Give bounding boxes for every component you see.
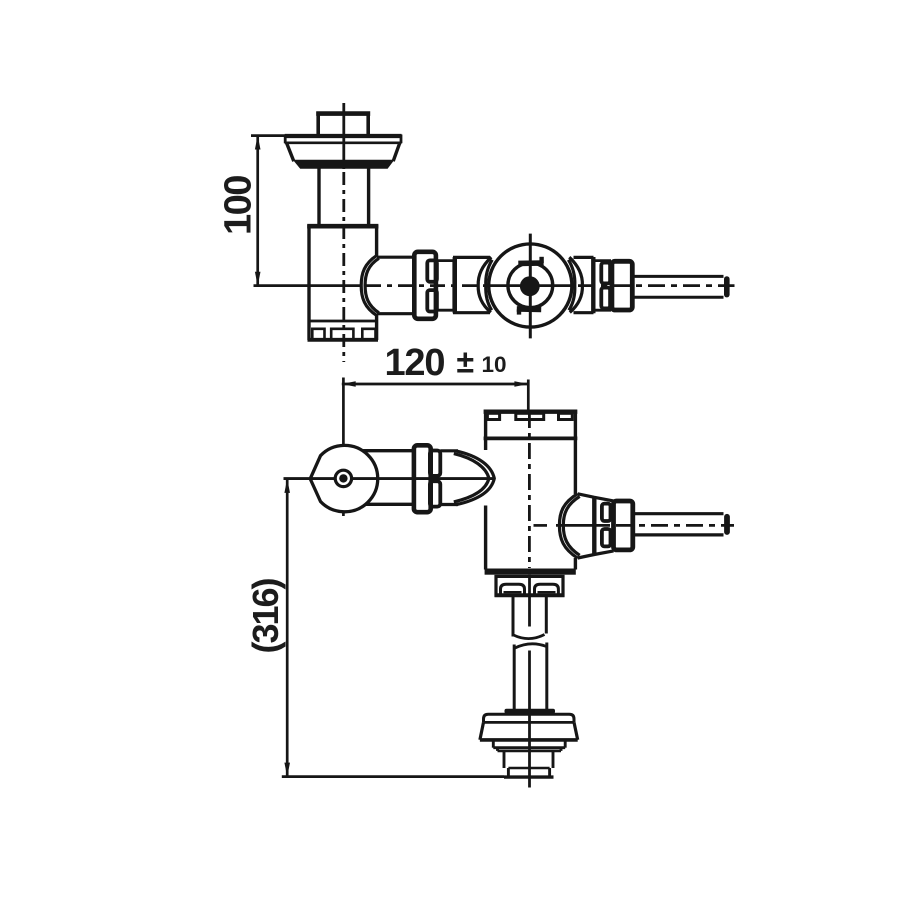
riser pipe (top view) xyxy=(319,168,369,227)
outlet pipe end cap (front view) xyxy=(724,517,730,532)
body bottom dark band (front view) xyxy=(485,569,576,575)
rotation bar top (top view) xyxy=(518,257,543,264)
outlet nut face (front view) xyxy=(592,497,596,555)
top view horizontal centerline xyxy=(254,284,735,287)
outlet union (front view) xyxy=(614,501,633,550)
knob hub ring (front view) xyxy=(338,473,349,484)
outlet pipe to union (top view) xyxy=(377,257,415,314)
mounting flange bar (top view) xyxy=(285,135,402,144)
supply pipe end cap (top view) xyxy=(724,279,730,295)
supply union right (top view) xyxy=(612,261,632,310)
dim 316 extension bottom xyxy=(282,775,504,778)
dim 316 arrow down xyxy=(284,763,290,777)
dim 120 line xyxy=(342,383,529,386)
inlet cone arcs (front view) xyxy=(454,451,495,505)
union nut at knob (front view) xyxy=(414,445,431,512)
spud socket dark band (front view) xyxy=(505,709,556,714)
svg-text:(316): (316) xyxy=(245,578,286,653)
svg-text:±: ± xyxy=(457,344,475,380)
body-to-outlet cone arcs (top view) xyxy=(361,255,379,315)
washers at knob union (front view) xyxy=(430,451,440,507)
handle crosshair vertical (top view) xyxy=(529,234,532,339)
dim 120 arrow left xyxy=(342,381,356,387)
spud flange top band (front view) xyxy=(484,714,575,722)
washers right (top view) xyxy=(601,263,610,309)
spud step 1 (front view) xyxy=(493,740,565,748)
spud step 2 (front view) xyxy=(498,748,562,768)
dim 120 extension right (to valve axis) xyxy=(527,380,530,414)
knob hub outer (front view) xyxy=(334,469,354,489)
outlet centerline (front view) xyxy=(534,524,735,527)
outlet washers (front view) xyxy=(602,504,611,547)
valve body (top view) xyxy=(307,225,378,340)
body bottom crenellation (top view) xyxy=(312,329,375,340)
outlet cone arcs (front view) xyxy=(559,494,579,559)
dim 316 line xyxy=(286,479,289,777)
dim 120 extension left (to knob axis) xyxy=(342,378,345,517)
spud flange skirt (front view) xyxy=(480,722,578,740)
svg-text:10: 10 xyxy=(482,352,507,377)
union nut (top view, left of handle) xyxy=(414,252,436,319)
short pipe into body (front view) xyxy=(440,451,458,505)
knob feed pipe (front view) xyxy=(358,451,415,505)
handle inner ring (top view) xyxy=(508,263,553,308)
svg-text:100: 100 xyxy=(218,176,260,235)
rotation bar bottom (top view) xyxy=(517,309,541,315)
vandal cap (top view) xyxy=(316,112,370,136)
dim 120 arrow right xyxy=(514,381,528,387)
body centerline vertical (front view) xyxy=(528,412,531,788)
handle stem dot (top view) xyxy=(520,276,540,296)
dim 100 extension line top xyxy=(251,134,287,137)
body cap top edge (front view) xyxy=(484,410,578,414)
spacer sleeve (top view) xyxy=(437,260,454,312)
body cap bottom edge (front view) xyxy=(484,436,578,440)
knob crosshair horizontal (front view) xyxy=(284,477,495,480)
handle wheel circle (top view) xyxy=(489,244,572,327)
spud step 3 (front view) xyxy=(504,768,554,777)
flange skirt trapezoid (top view) xyxy=(287,143,400,161)
outlet frustum (front view) xyxy=(578,494,614,558)
dim 316 arrow up xyxy=(284,479,290,493)
body sides (front view) xyxy=(486,410,576,570)
dim 100 line xyxy=(256,136,259,286)
union washers (top view) xyxy=(427,260,437,311)
dim 100 arrow down xyxy=(255,272,261,286)
lower flush tube (front view) xyxy=(514,643,547,711)
coupling nut dome tabs (front view) xyxy=(501,584,559,595)
body cap crenellation tabs (front view) xyxy=(487,413,572,419)
svg-text:120: 120 xyxy=(385,342,445,384)
bell arcs right of handle (top view) xyxy=(568,257,582,312)
outlet pipe (front view) xyxy=(633,514,724,535)
top view vertical centerline xyxy=(342,103,345,362)
supply pipe (top view) xyxy=(632,276,723,297)
outlet nut right (top view) xyxy=(574,257,594,313)
flange shadow band (dark) xyxy=(293,160,395,169)
bell arcs left of handle (top view) xyxy=(478,257,492,312)
upper flush tube (front view) xyxy=(513,595,546,636)
tube slip joint (front view) xyxy=(514,635,547,649)
stop nut (top view) xyxy=(453,257,490,313)
spacer sleeve right (top view) xyxy=(593,261,611,311)
control knob (front view) xyxy=(310,445,378,511)
tailpiece coupling nut (front view) xyxy=(495,576,565,595)
dim 100 arrow up xyxy=(255,135,261,149)
